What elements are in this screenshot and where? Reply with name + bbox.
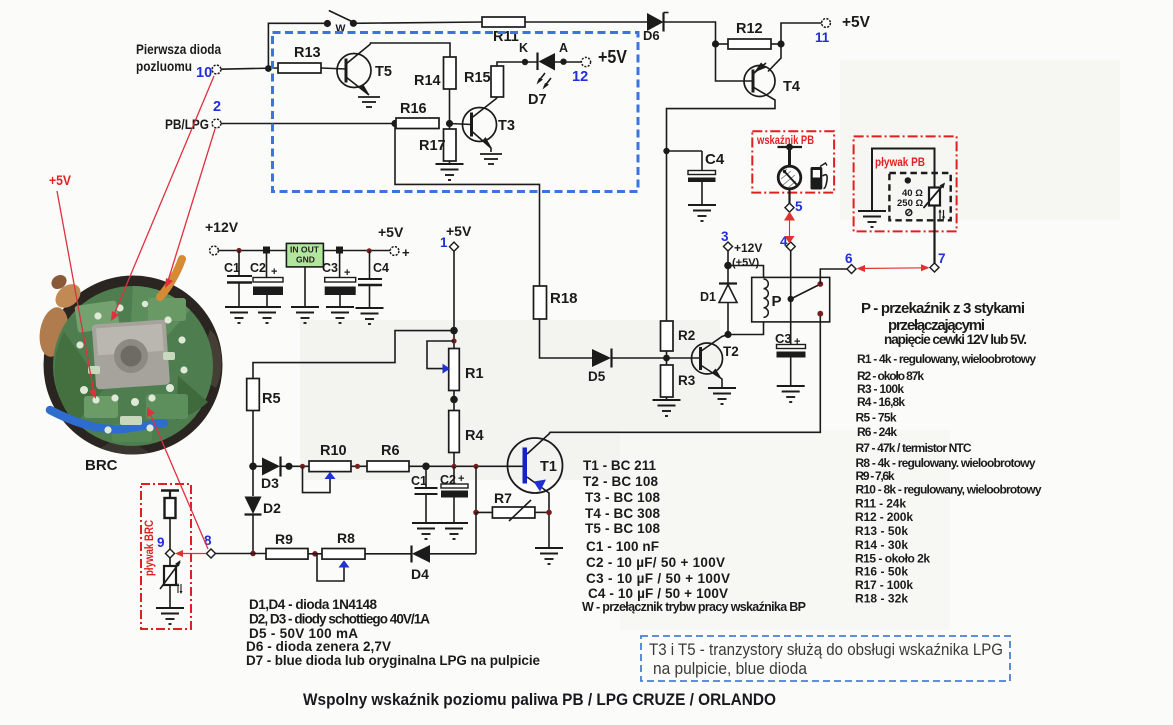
svg-text:+5V: +5V (446, 223, 472, 239)
red pointer line from node 10 to board (111, 76, 214, 321)
svg-text:D6: D6 (643, 28, 660, 43)
svg-text:R18: R18 (550, 290, 578, 307)
transistor T1 (508, 432, 563, 547)
svg-text:R16 - 50k: R16 - 50k (855, 565, 908, 579)
transistor T2 (692, 335, 739, 388)
relay P box (752, 277, 830, 322)
node: R10 left junction (300, 464, 305, 469)
svg-text:D1,D4 - dioda 1N4148: D1,D4 - dioda 1N4148 (249, 597, 377, 612)
node: C1 bottom junction (422, 463, 430, 471)
node: R7 left junction (473, 510, 479, 516)
wire: switch to R11 (353, 22, 482, 23)
node: D1/coil junction top (724, 262, 732, 270)
ground under R3 (653, 400, 681, 416)
wire: junction to R12 (716, 43, 729, 45)
svg-text:C1 - 100 nF: C1 - 100 nF (586, 539, 659, 554)
resistor R3 (661, 365, 696, 399)
svg-text:10: 10 (196, 65, 212, 81)
svg-text:D3: D3 (261, 475, 279, 491)
transistor T4 (667, 44, 800, 151)
svg-text:T1: T1 (540, 459, 557, 475)
wire: junction up and right to +5V node 11 (781, 23, 822, 44)
svg-text:wskaźnik PB: wskaźnik PB (756, 133, 814, 147)
ground under C1 timing (412, 523, 440, 539)
transistor and capacitor list (582, 458, 806, 614)
ground under regulator (291, 307, 319, 323)
svg-text:R14 - 30k: R14 - 30k (855, 538, 908, 552)
red arrow node 5 to node 4 (784, 212, 795, 244)
svg-text:R3 - 100k: R3 - 100k (857, 382, 904, 396)
svg-text:+5V: +5V (598, 47, 627, 67)
svg-text:R12 - 200k: R12 - 200k (855, 510, 913, 524)
wire: node 10 to R13 (221, 68, 278, 69)
wire: R8 to D4 (365, 553, 411, 555)
node 2 terminal (212, 119, 221, 128)
node 12 terminal (572, 47, 627, 85)
svg-text:R14: R14 (414, 73, 441, 89)
ground under relay C3 (777, 386, 805, 402)
red pointer line from node 2 to board (165, 129, 215, 288)
svg-text:R6: R6 (381, 443, 400, 459)
wire: R10 to R6 (351, 465, 367, 467)
svg-text:A: A (559, 41, 568, 55)
diode D4 (411, 545, 476, 582)
pływak PB sensor details (897, 177, 923, 215)
svg-text:R16: R16 (400, 101, 427, 117)
node: C4 junction (367, 248, 372, 253)
node: R1 top junction (451, 338, 456, 343)
wire: R9 to R8 (308, 553, 322, 555)
svg-text:R7 - 47k / termistor NTC: R7 - 47k / termistor NTC (856, 441, 972, 455)
ground under C2 (253, 307, 281, 323)
diode D1 (flyback) (700, 266, 737, 335)
svg-text:T5: T5 (375, 64, 392, 80)
resistor R13 (278, 45, 321, 73)
wire: junction to relay coil bottom (728, 322, 764, 335)
svg-text:D4: D4 (411, 566, 429, 582)
resistor R9 (266, 531, 308, 559)
svg-text:R13: R13 (294, 45, 321, 61)
wire: regulator GND lead (304, 267, 306, 306)
svg-text:D2, D3 - diody schottiego 40V/: D2, D3 - diody schottiego 40V/1A (249, 612, 430, 627)
node: C4 bypass junction (663, 148, 669, 154)
diode D3 (253, 457, 309, 492)
diode D6 (643, 13, 669, 44)
svg-text:C2 - 10 µF/ 50 + 100V: C2 - 10 µF/ 50 + 100V (586, 555, 725, 570)
capacitor C2 (supply, electrolytic) (250, 250, 283, 306)
node: +5V rail junction (450, 327, 458, 335)
svg-text:R1 - 4k - regulowany, wieloobr: R1 - 4k - regulowany, wieloobrotowy (857, 352, 1036, 366)
relay upper contact (817, 281, 823, 287)
terminal +12V input (210, 246, 219, 255)
svg-text:napięcie cewki 12V lub 5V.: napięcie cewki 12V lub 5V. (884, 332, 1027, 347)
svg-text:R7: R7 (494, 490, 512, 506)
svg-text:D7: D7 (528, 92, 547, 108)
svg-text:R11 - 24k: R11 - 24k (855, 497, 906, 511)
svg-text:+12V: +12V (734, 241, 762, 255)
resistor in pływak BRC (165, 498, 176, 549)
wire: R6 to T1 base (409, 465, 523, 467)
solder pads on photo (76, 301, 187, 434)
wire: R1 bottom to R4 (453, 391, 455, 411)
svg-text:+: + (271, 266, 277, 278)
wire: +12V input to regulator IN (218, 250, 286, 252)
thermistor R7 (476, 490, 549, 521)
node: R6 left junction (355, 464, 360, 469)
pływak PB red box (854, 136, 957, 231)
node: junction top-left (265, 65, 272, 72)
svg-text:(+5V): (+5V) (732, 257, 760, 269)
transistor T3 (463, 98, 515, 152)
blue dashed box around T5/T3 LPG indicator driver (273, 33, 639, 192)
svg-text:pozluomu: pozluomu (136, 58, 192, 74)
svg-text:R17 - 100k: R17 - 100k (855, 578, 913, 592)
ground under T1 emitter (535, 548, 563, 564)
pływak BRC red box (141, 484, 191, 629)
svg-text:T2: T2 (723, 344, 739, 359)
capacitor C4 (bypass) (667, 151, 725, 204)
svg-text:C3: C3 (322, 261, 338, 275)
svg-text:T3: T3 (498, 118, 515, 134)
thermistor in pływak BRC (160, 560, 183, 607)
svg-text:C1: C1 (411, 474, 427, 488)
node 10 terminal (212, 65, 221, 74)
capacitor C2 (timing, electrolytic) (440, 466, 468, 522)
svg-text:R4 - 16,8k: R4 - 16,8k (857, 395, 905, 409)
svg-text:+: + (402, 245, 410, 260)
wire: pływak PB to node 7 (933, 206, 935, 264)
svg-text:P: P (772, 293, 782, 310)
svg-text:T3 - BC 108: T3 - BC 108 (585, 490, 660, 505)
svg-text:R6 - 24k: R6 - 24k (857, 425, 897, 439)
ground under T3 emitter (480, 154, 502, 164)
svg-text:K: K (519, 41, 528, 55)
svg-text:pływak BRC: pływak BRC (144, 520, 156, 576)
pływak PB wiring (872, 149, 935, 211)
LED D7 (519, 41, 581, 108)
switch W (324, 11, 357, 35)
relay description text (861, 300, 1027, 347)
svg-text:12: 12 (572, 69, 588, 85)
wire: node 3 down to junction (727, 251, 729, 266)
wire: junction to T3 base (450, 124, 472, 125)
wire: node 4 down through relay to C3 (790, 251, 792, 344)
wire: T3 collector to R15 (496, 97, 498, 98)
svg-text:R2 - około 87k: R2 - około 87k (857, 369, 924, 383)
svg-text:+: + (458, 473, 464, 485)
node: T1 emitter / R7 right junction (546, 510, 552, 516)
svg-text:+5V: +5V (842, 14, 870, 31)
wire: +5V rail loop to R5 (253, 331, 454, 379)
svg-text:250 Ω: 250 Ω (897, 198, 923, 209)
wire: R5 bottom to base line (252, 411, 254, 467)
wire: T1 collector to relay contact (550, 314, 821, 432)
wire: node 2 to R16 (221, 123, 395, 125)
node 3 terminal (721, 229, 762, 269)
svg-text:7: 7 (938, 251, 946, 266)
svg-text:D2: D2 (263, 500, 281, 516)
node: junction R16 left (391, 120, 398, 127)
red pointer line from +5V to board (57, 191, 96, 399)
wire: R13 to T5 base (321, 68, 346, 69)
metal block on photo (92, 320, 170, 390)
BRC circuit board photo (36, 259, 223, 474)
svg-text:P - przekaźnik z 3 stykami: P - przekaźnik z 3 stykami (861, 300, 1025, 317)
wire: regulator OUT to +5V terminal (323, 250, 390, 252)
svg-text:+12V: +12V (205, 219, 239, 235)
voltage regulator IN OUT GND (286, 243, 323, 267)
orange wire on photo (160, 259, 182, 297)
svg-text:D5: D5 (588, 369, 606, 384)
potentiometer R10 (303, 443, 352, 493)
svg-text:C4: C4 (373, 261, 389, 275)
node 2 label PB/LPG (165, 99, 221, 132)
node: D3 output junction (285, 463, 292, 470)
node 9 terminal (157, 535, 175, 558)
svg-text:Pierwsza dioda: Pierwsza dioda (136, 41, 221, 57)
resistor R14 (414, 57, 456, 89)
node: junction at R12 left (712, 40, 719, 47)
relay common contact and lever (788, 285, 819, 302)
resistor R18 (534, 286, 578, 319)
node: K junction dot (522, 59, 528, 65)
node: C3 junction (336, 247, 343, 254)
node 5 terminal (785, 199, 803, 214)
node 7 terminal (930, 251, 946, 272)
node: R4/C2 junction (451, 464, 456, 469)
svg-text:pływak PB: pływak PB (875, 155, 925, 169)
resistor R16 (396, 101, 439, 129)
svg-text:R9 - 7,6k: R9 - 7,6k (856, 469, 895, 483)
svg-text:T3 i T5 - tranzystory służą do: T3 i T5 - tranzystory służą do obsługi w… (649, 641, 1003, 659)
fuel pump icon (811, 163, 828, 190)
wire: bypass junction down to R2 (666, 151, 668, 321)
svg-text:R13 - 50k: R13 - 50k (855, 524, 908, 538)
svg-text:D1: D1 (700, 290, 716, 304)
svg-text:C4 - 10 µF / 50 + 100V: C4 - 10 µF / 50 + 100V (588, 586, 728, 601)
wire: upper contact to node 6 (820, 269, 847, 284)
node 1 terminal +5V (440, 223, 472, 251)
svg-text:T1 - BC 211: T1 - BC 211 (583, 458, 656, 473)
ground under C1 (225, 307, 253, 323)
resistor list (855, 352, 1042, 606)
svg-text:T4: T4 (783, 79, 800, 95)
diode list (246, 597, 540, 668)
svg-text:2: 2 (213, 99, 221, 115)
svg-text:C3: C3 (775, 331, 792, 346)
svg-text:+5V: +5V (49, 173, 71, 188)
capacitor C3 (relay) (775, 331, 806, 385)
wire: node 9 to thermistor (169, 558, 171, 566)
diode D2 (245, 466, 282, 553)
wire: top rail from node10 junction up and right to switch (268, 23, 327, 69)
node: node8/D2/R9 junction (250, 551, 256, 557)
node: R9/R8 junction (312, 551, 318, 557)
capacitor C3 (supply, electrolytic) (322, 250, 356, 306)
red pointer line from node 8 to board (147, 407, 208, 549)
svg-text:9: 9 (157, 535, 165, 550)
svg-text:R15 - około 2k: R15 - około 2k (855, 552, 930, 566)
svg-text:T4 - BC 308: T4 - BC 308 (585, 506, 660, 521)
resistor R6 (367, 443, 409, 472)
wire: blue box output down to R18 (395, 124, 540, 287)
svg-text:R15: R15 (464, 70, 491, 86)
ground under T5 emitter (358, 97, 380, 107)
svg-text:R17: R17 (419, 138, 446, 154)
svg-text:R8 - 4k - regulowany. wieloobr: R8 - 4k - regulowany. wieloobrotowy (856, 456, 1036, 470)
node 11 terminal (815, 14, 870, 45)
svg-text:R18 - 32k: R18 - 32k (855, 592, 908, 606)
node: junction at R12 right (777, 40, 784, 47)
svg-text:11: 11 (815, 30, 830, 45)
node: C1 junction (236, 248, 241, 253)
svg-text:na pulpicie, blue dioda: na pulpicie, blue dioda (653, 660, 808, 678)
svg-text:R8: R8 (337, 530, 355, 546)
svg-text:Wspolny wskaźnik poziomu pa: Wspolny wskaźnik poziomu paliwa PB / LPG… (303, 691, 776, 709)
wire: R2 to T2 base junction (666, 351, 668, 365)
wire: gauge to node 5 (788, 189, 790, 204)
wire: R4 bottom to base line (453, 453, 455, 467)
wire: R12 right to junction (771, 43, 781, 45)
blue dashed note box T3 i T5 (641, 636, 1010, 681)
wire: junction to relay coil top (728, 266, 764, 278)
wire: R14 bottom to R16 junction (449, 89, 451, 124)
svg-text:C4: C4 (705, 151, 725, 168)
node: R7 branch junction (473, 464, 478, 469)
wire: R18 to D5 (540, 319, 593, 358)
svg-text:W - przełącznik trybw pracy ws: W - przełącznik trybw pracy wskaźnika BP (582, 600, 806, 614)
resistor R2 (661, 321, 696, 351)
svg-text:1: 1 (440, 235, 448, 250)
svg-text:R3: R3 (678, 373, 696, 388)
wskaźnik PB red box (752, 131, 834, 192)
node: R1/R4 junction (450, 396, 458, 404)
ground in pływak PB (858, 211, 886, 227)
svg-text:8: 8 (204, 533, 212, 548)
svg-text:R5 - 75k: R5 - 75k (856, 411, 897, 425)
wire: R11 to D6 (525, 21, 647, 23)
red arrow between node 6 and node 7 (857, 264, 930, 272)
node 4 terminal (780, 234, 795, 251)
ground under C2 timing (440, 523, 468, 539)
svg-text:R10: R10 (320, 443, 347, 459)
ground under bypass C4 (688, 205, 716, 221)
fuel gauge needle pivot (778, 144, 803, 166)
wire: node 8 to junction (215, 553, 266, 555)
svg-text:IN OUT: IN OUT (290, 245, 320, 255)
wire: D4 to R7 branch (475, 512, 477, 553)
svg-text:R4: R4 (465, 428, 484, 444)
node 8 terminal (204, 533, 216, 558)
resistor R17 (419, 124, 456, 164)
resistor R4 (449, 411, 484, 453)
svg-text:R12: R12 (736, 21, 763, 37)
diode D5 (588, 349, 667, 385)
svg-text:6: 6 (845, 251, 853, 266)
svg-text:+5V: +5V (378, 224, 404, 240)
ground under T2 emitter (708, 388, 736, 404)
fuel gauge dial (778, 166, 801, 189)
potentiometer R1 (427, 341, 484, 391)
svg-text:R5: R5 (262, 391, 281, 407)
wire: node 1 down to +5V rail junction (453, 252, 455, 331)
capacitor C1 (supply) (224, 251, 252, 307)
svg-text:T5 - BC 108: T5 - BC 108 (585, 521, 660, 536)
resistor R5 (247, 379, 281, 411)
node: D1 anode / T2 collector junction (724, 331, 731, 338)
wire: R7 branch down (475, 466, 477, 512)
blue wire on photo (50, 410, 164, 429)
ground under C4 (356, 308, 384, 324)
svg-text:PB/LPG: PB/LPG (165, 116, 209, 132)
svg-text:BRC: BRC (85, 457, 118, 474)
svg-text:R2: R2 (678, 328, 695, 343)
potentiometer R8 (317, 530, 365, 581)
pływak PB inner dashed box (889, 173, 950, 220)
node: junction R16 right / R14 / R17 / T3 base (446, 120, 453, 127)
svg-text:C1: C1 (224, 261, 240, 275)
node: T2 base junction (663, 355, 670, 362)
capacitor C4 (supply) (358, 251, 389, 308)
ground under R17 (436, 164, 464, 180)
node 10 label Pierwsza dioda poziomu (136, 41, 221, 81)
wire: R15 top to LED D7 (497, 62, 537, 66)
wire: +5V rail to R1 top (453, 331, 455, 349)
ground under C3 (326, 307, 354, 323)
resistor R15 (464, 66, 504, 97)
svg-text:D6 - dioda zenera 2,7V: D6 - dioda zenera 2,7V (246, 639, 391, 654)
pływak PB rheostat (924, 183, 946, 221)
ground in pływak BRC (156, 608, 184, 624)
terminal +5V output (378, 224, 410, 260)
node 6 terminal (845, 251, 856, 274)
wire: D6 to R12 junction (664, 22, 716, 44)
wire: junction to T2 base (667, 357, 701, 359)
transistor T5 (337, 44, 392, 95)
resistor R11 (482, 17, 525, 45)
svg-text:R1: R1 (465, 366, 484, 382)
relay P coil (764, 279, 782, 317)
resistor R12 (728, 21, 771, 49)
svg-text:C3 - 10 µF / 50 + 100V: C3 - 10 µF / 50 + 100V (586, 571, 730, 586)
svg-text:C2: C2 (250, 261, 266, 275)
node: C2 junction (263, 247, 270, 254)
red arrow node 8 to node 9 (175, 550, 206, 557)
svg-text:T2 - BC 108: T2 - BC 108 (583, 474, 658, 489)
svg-text:R9: R9 (275, 531, 293, 547)
svg-text:D7 - blue dioda lub oryginalna: D7 - blue dioda lub oryginalna LPG na pu… (246, 653, 540, 668)
svg-text:GND: GND (296, 255, 315, 265)
svg-text:5: 5 (795, 199, 803, 214)
float sensor BRC top bar (161, 491, 179, 499)
wire: T5 collector to R14 top (371, 43, 451, 57)
node: R5/D3/D2 junction (249, 463, 257, 471)
svg-text:R10 - 8k - regulowany, wieloob: R10 - 8k - regulowany, wieloobrotowy (856, 483, 1042, 497)
relay lower contact (817, 311, 823, 317)
capacitor C1 (timing) (411, 466, 438, 522)
